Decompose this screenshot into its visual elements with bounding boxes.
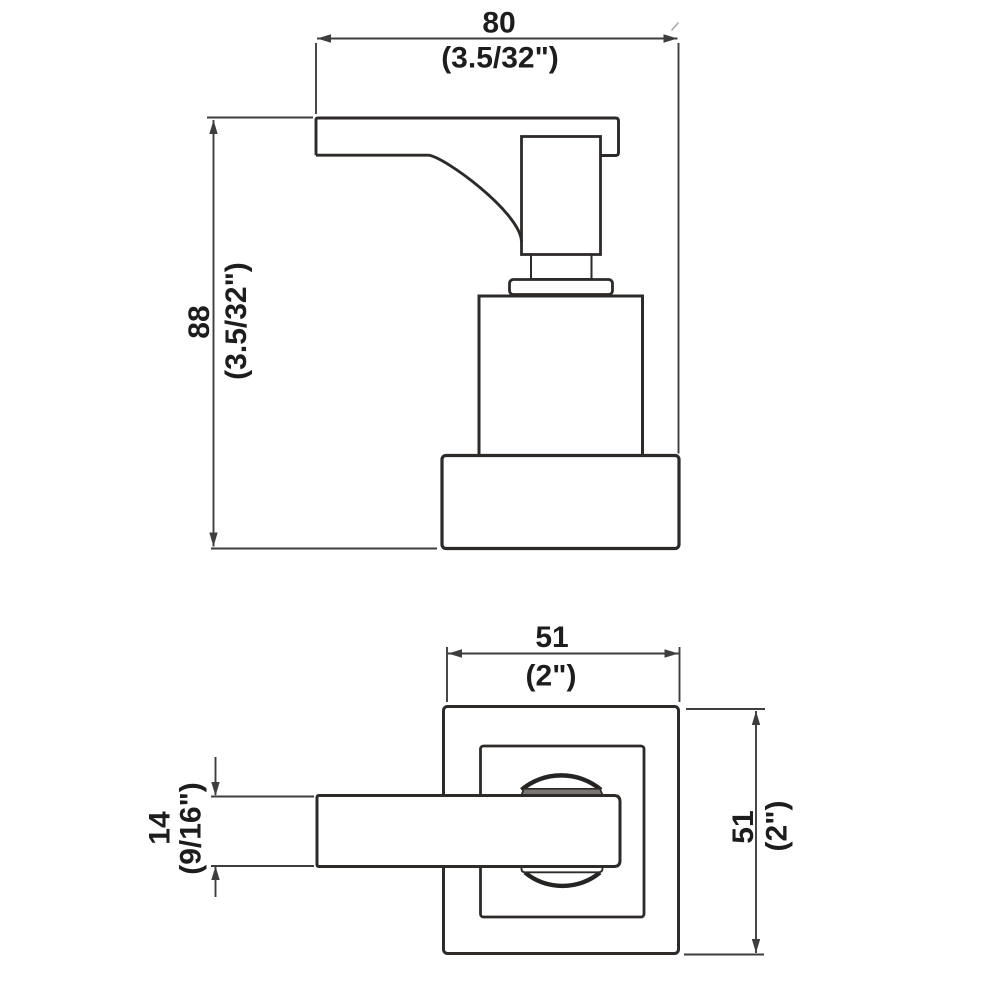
top view: stem circle bottom arc (525, 873, 600, 886)
top view: outer square (444, 707, 679, 954)
dimension 51 top line (448, 649, 679, 657)
top view: stem circle top arc (522, 775, 602, 789)
top view: lower chord band (522, 866, 603, 872)
top view: upper chord band (522, 789, 603, 795)
svg-text:(2"): (2") (761, 801, 794, 852)
dimension 88 top extension line (207, 117, 313, 119)
dimension 51 right line (752, 711, 760, 953)
dimension 51 top left extension line (446, 647, 448, 702)
dimension 51 right top extension line (686, 708, 765, 710)
svg-text:80: 80 (482, 7, 515, 40)
svg-text:(9/16"): (9/16") (175, 782, 208, 875)
top view: handle lever (317, 796, 620, 867)
svg-text:14: 14 (144, 811, 177, 845)
dimension 14 bottom extension line (211, 865, 314, 867)
dimension 88 bottom extension line (211, 548, 437, 550)
svg-text:51: 51 (535, 621, 568, 654)
svg-text:(3.5/32"): (3.5/32") (441, 42, 559, 75)
svg-text:(3.5/32"): (3.5/32") (220, 262, 253, 380)
side view: stem (522, 137, 601, 255)
svg-text:51: 51 (727, 810, 760, 843)
dimension 51 right bottom extension line (684, 954, 764, 956)
dimension 80 left extension line (315, 43, 317, 114)
dimension 80 right extension line (678, 43, 680, 454)
top view: inner square (481, 746, 645, 917)
side view: handle lever (316, 118, 619, 242)
side view: base plate (442, 456, 679, 549)
dimension 14 upper arrow (211, 757, 219, 796)
dimension 14 top extension line (211, 796, 314, 798)
side view: collar (510, 280, 613, 295)
dimension 88 line (209, 120, 217, 547)
side view: body (479, 296, 643, 456)
svg-text:(2"): (2") (526, 660, 577, 693)
dimension 80 line (317, 34, 678, 42)
dimension 14 lower arrow (211, 866, 219, 897)
side view: neck (531, 255, 592, 280)
dimension 51 top right extension line (679, 647, 681, 702)
stray tick mark (672, 23, 679, 31)
svg-text:88: 88 (183, 305, 216, 338)
